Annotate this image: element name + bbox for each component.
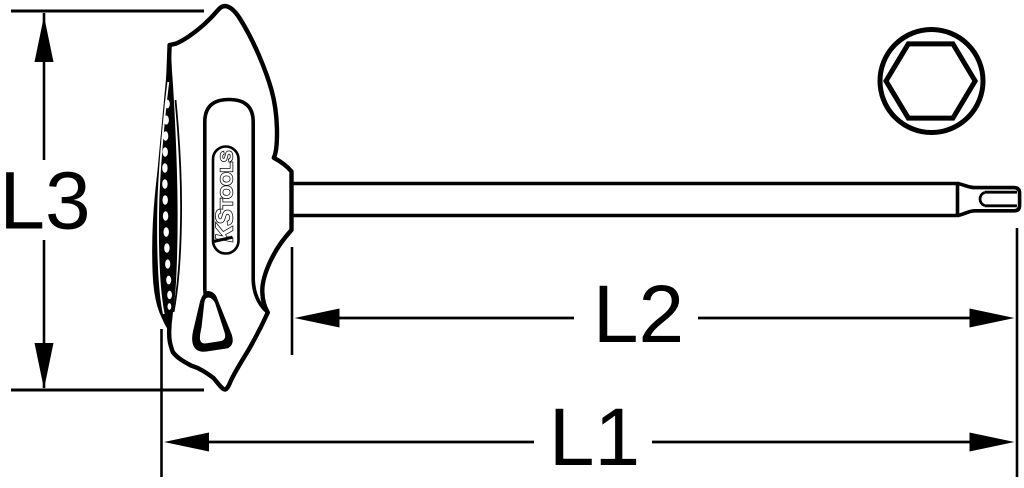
handle outline <box>154 6 291 390</box>
svg-text:KSTOOLS: KSTOOLS <box>212 151 239 242</box>
socket hexagon <box>886 44 975 118</box>
hex tip flat line upper <box>985 191 1018 194</box>
socket cross-section circle <box>880 30 983 133</box>
svg-text:L2: L2 <box>593 269 684 360</box>
L1 right arrow <box>970 433 1015 452</box>
L3 dimension line lower segment <box>43 240 46 388</box>
L2 right arrow <box>970 309 1015 328</box>
capsule left lower flare <box>205 290 210 312</box>
L3 up arrow <box>35 16 54 62</box>
hex tip corner arc <box>980 193 985 206</box>
L1 left arrow <box>164 433 209 452</box>
L3 top extension line <box>11 10 204 13</box>
L2 left extension line <box>291 247 294 355</box>
hang hole outer <box>192 291 233 352</box>
L1 right extension line <box>1016 228 1019 477</box>
L1 dimension line right segment <box>652 441 972 444</box>
hang hole inner <box>200 297 225 343</box>
L2 dimension line right segment <box>698 317 972 320</box>
KS TOOLS logo text <box>212 151 239 242</box>
logo capsule <box>213 147 239 254</box>
lens inner detail line <box>174 100 182 312</box>
L2 dimension line left segment <box>337 317 574 320</box>
svg-text:L1: L1 <box>549 392 640 483</box>
L3 dimension line upper segment <box>43 13 46 160</box>
grip lens (black strip) <box>155 48 177 331</box>
shaft bottom edge <box>292 214 956 218</box>
svg-text:L3: L3 <box>0 156 91 247</box>
shaft top edge <box>292 182 956 186</box>
L1 dimension line left segment <box>206 441 534 444</box>
L1 left extension line <box>160 329 163 477</box>
KS swoosh underline <box>214 237 233 241</box>
capsule (inner grip panel) <box>205 100 268 313</box>
L3 down arrow <box>35 343 54 389</box>
hex tip flat line lower <box>985 204 1018 207</box>
L2 left arrow <box>295 309 340 328</box>
grip lens dots <box>162 100 172 310</box>
tip transition and hex tip outline <box>958 184 1020 216</box>
grip lens inner white sliver <box>158 82 168 314</box>
shaft end line <box>956 182 960 217</box>
L3 bottom extension line <box>11 389 204 392</box>
